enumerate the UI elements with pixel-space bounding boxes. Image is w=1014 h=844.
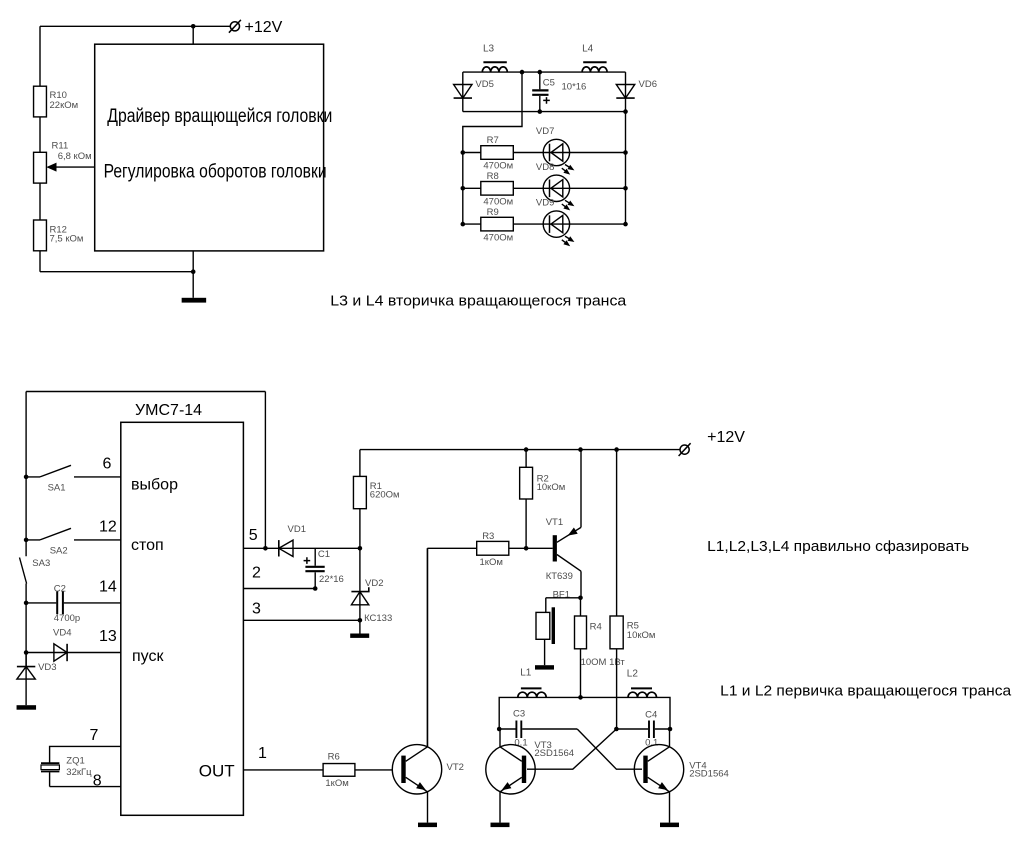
resistor R9 470 Ohm (481, 217, 514, 231)
svg-text:1кОм: 1кОм (480, 557, 503, 568)
transistor VT2 (392, 745, 441, 794)
svg-text:стоп: стоп (131, 537, 164, 554)
wire: right rail of LED rows (625, 112, 627, 225)
svg-text:0.1: 0.1 (645, 737, 658, 748)
svg-text:VD9: VD9 (536, 198, 554, 209)
ground (BF1) (535, 665, 554, 669)
ground (VT3) (491, 823, 510, 828)
svg-text:10кОм: 10кОм (627, 630, 656, 641)
diode VD6 (625, 72, 627, 112)
svg-text:пуск: пуск (132, 648, 164, 665)
resistor R7 470 Ohm (481, 146, 514, 160)
svg-text:выбор: выбор (131, 476, 178, 493)
inductor L2 (628, 692, 657, 697)
capacitor C1 22*16 electrolytic (314, 548, 316, 566)
svg-text:10*16: 10*16 (562, 81, 587, 92)
svg-text:VD8: VD8 (536, 162, 554, 173)
svg-text:OUT: OUT (199, 762, 235, 781)
wire: row R9/VD9 (463, 223, 626, 225)
switch SA2 (pin 12 стоп) (24, 538, 29, 543)
resistor R12 7,5 kOm (34, 220, 47, 251)
svg-text:VD2: VD2 (365, 578, 383, 589)
wire: bottom return to ground (40, 271, 193, 273)
switch SA1 (pin 6 выбор) (24, 475, 29, 480)
diode VD4 (pin 13 пуск) (24, 650, 29, 655)
inductor L1 (518, 692, 546, 697)
diode VD1 (279, 540, 293, 556)
wire: left rail of divider (39, 26, 41, 271)
resistor R5 10kOm (614, 447, 619, 452)
svg-text:VD4: VD4 (53, 628, 71, 639)
svg-text:14: 14 (99, 579, 117, 596)
resistor R2 10kOm (524, 447, 529, 452)
capacitor C4 0.1 (616, 728, 670, 730)
ground (VT2) (418, 823, 437, 828)
svg-text:22кОм: 22кОм (50, 100, 79, 111)
wire: row R8/VD8 (463, 187, 626, 189)
power terminal +12V (top left) (40, 25, 230, 27)
LED VD7 (543, 139, 569, 165)
svg-text:2: 2 (252, 565, 261, 582)
svg-text:VT1: VT1 (546, 517, 563, 528)
svg-text:L4: L4 (582, 43, 594, 54)
svg-text:VD5: VD5 (475, 79, 493, 90)
wire: cross-coupling C3 to VT4 base (577, 729, 642, 769)
svg-text:+12V: +12V (707, 429, 745, 446)
wire: +12V top rail (lower section) (360, 449, 680, 451)
svg-text:12: 12 (99, 519, 117, 536)
svg-text:ZQ1: ZQ1 (66, 756, 84, 767)
svg-text:VD6: VD6 (639, 79, 657, 90)
capacitor C5 10*16 (538, 70, 543, 75)
svg-text:R9: R9 (487, 207, 499, 218)
svg-text:L3 и L4 вторичка вращающегося: L3 и L4 вторичка вращающегося транса (330, 292, 627, 309)
power terminal +12V (right) (680, 445, 689, 454)
svg-text:2SD1564: 2SD1564 (534, 748, 574, 759)
svg-text:C2: C2 (54, 584, 66, 595)
svg-text:SA1: SA1 (48, 483, 66, 494)
wire: pin 3 line (243, 619, 360, 621)
resistor R3 1kOm (427, 547, 552, 549)
IC UMS7-14 box (121, 422, 244, 815)
wire: pin 2 line (243, 588, 315, 590)
svg-text:L1 и L2 первичка вращающегося: L1 и L2 первичка вращающегося транса (720, 683, 1012, 700)
svg-text:КТ639: КТ639 (546, 571, 573, 582)
svg-text:620Ом: 620Ом (370, 489, 400, 500)
switch SA3 (in left rail) (20, 558, 27, 584)
svg-text:22*16: 22*16 (319, 574, 344, 585)
svg-text:7: 7 (90, 727, 99, 744)
svg-text:R8: R8 (487, 171, 499, 182)
diode VD5 (462, 72, 464, 112)
svg-text:1: 1 (258, 745, 267, 762)
svg-text:BF1: BF1 (553, 590, 570, 601)
svg-text:L3: L3 (483, 43, 495, 54)
wire: secondary bottom rail (463, 111, 626, 113)
ground (VD2) (359, 620, 361, 633)
svg-text:6: 6 (103, 455, 112, 472)
wiper arrow of R11 from driver box (54, 166, 95, 168)
LED VD8 (543, 175, 569, 201)
node: +12V junction to driver box (191, 24, 196, 29)
svg-text:L1: L1 (520, 668, 532, 679)
svg-text:10ОМ 1Вт: 10ОМ 1Вт (581, 657, 626, 668)
wire: VT2 collector to R3 line (426, 548, 428, 747)
transistor VT3 2SD1564 (mirrored) (486, 745, 535, 794)
svg-text:R3: R3 (482, 531, 494, 542)
resistor R4 10 Om 1Vt (580, 598, 582, 698)
svg-text:+12V: +12V (245, 19, 283, 36)
wire: primary winding rail L1-L2 (499, 697, 670, 729)
node BF1 (578, 596, 583, 601)
svg-text:32кГц: 32кГц (66, 767, 92, 778)
svg-text:УМС7-14: УМС7-14 (135, 402, 202, 419)
inductor L4 (582, 67, 607, 72)
transistor VT1 KT639 (pnp) (553, 535, 557, 561)
ground (VD3) (17, 705, 37, 710)
wire: VT3 base to R5/C4 node (527, 729, 616, 769)
svg-text:Драйвер вращющейся головки: Драйвер вращющейся головки (107, 106, 332, 127)
resistor R6 1kOm (pin 1) (243, 769, 392, 771)
svg-text:3: 3 (252, 601, 261, 618)
svg-text:2SD1564: 2SD1564 (689, 769, 729, 780)
svg-text:470Ом: 470Ом (483, 232, 513, 243)
svg-text:L1,L2,L3,L4 правильно сфазиров: L1,L2,L3,L4 правильно сфазировать (707, 538, 969, 555)
wire: feed from L3/L4 tap down to LED rows (520, 70, 525, 75)
buzzer BF1 (546, 598, 581, 613)
resistor R10 22kOm (34, 86, 47, 117)
wire: top rail from left rail over box to pin 5 column (26, 392, 265, 549)
ground (driver block) (182, 298, 207, 303)
transistor VT4 2SD1564 (634, 745, 683, 794)
svg-text:7,5 кОм: 7,5 кОм (50, 233, 84, 244)
ground (VT4) (660, 823, 679, 828)
zener diode VD2 KC133 (359, 548, 361, 620)
inductor L3 (482, 67, 507, 72)
svg-text:C5: C5 (543, 77, 555, 88)
wire: left switch rail (25, 392, 27, 667)
svg-text:VD3: VD3 (38, 662, 56, 673)
wire: row R7/VD7 (463, 152, 626, 154)
svg-text:R6: R6 (328, 752, 340, 763)
node: center tap to R4 (578, 695, 583, 700)
diode VD3 to ground (25, 653, 27, 706)
svg-text:C3: C3 (513, 709, 525, 720)
svg-text:1кОм: 1кОм (325, 778, 348, 789)
crystal ZQ1 32kHz (pins 7,8) (50, 746, 121, 786)
capacitor C2 4700p (pin 14) (24, 601, 29, 606)
svg-text:5: 5 (249, 527, 258, 544)
svg-text:4700p: 4700p (54, 613, 80, 624)
wire: secondary top rail (463, 71, 626, 73)
resistor R1 620 Ohm (359, 450, 361, 549)
svg-text:L2: L2 (627, 668, 639, 679)
svg-text:C4: C4 (645, 710, 657, 721)
svg-text:6,8 кОм: 6,8 кОм (58, 151, 92, 162)
svg-text:SA2: SA2 (50, 546, 68, 557)
LED VD9 (543, 211, 569, 237)
svg-text:R4: R4 (590, 622, 602, 633)
driver block box (95, 44, 324, 251)
svg-text:10кОм: 10кОм (537, 482, 566, 493)
svg-text:КС133: КС133 (364, 613, 392, 624)
svg-text:C1: C1 (318, 549, 330, 560)
node: box bottom to ground junction (191, 269, 196, 274)
svg-text:R11: R11 (52, 140, 69, 151)
svg-text:VD7: VD7 (536, 126, 554, 137)
potentiometer R11 6,8 kOm (34, 152, 47, 183)
svg-text:SA3: SA3 (32, 558, 50, 569)
resistor R8 470 Ohm (481, 182, 514, 196)
svg-text:VT2: VT2 (447, 762, 464, 773)
capacitor C3 0.1 (499, 728, 577, 730)
svg-text:VD1: VD1 (288, 524, 306, 535)
wire: pin 5 line with node (243, 547, 360, 549)
svg-text:Регулировка оборотов головки: Регулировка оборотов головки (104, 161, 327, 182)
svg-text:R7: R7 (487, 135, 499, 146)
svg-text:8: 8 (93, 773, 102, 790)
svg-text:13: 13 (99, 628, 117, 645)
